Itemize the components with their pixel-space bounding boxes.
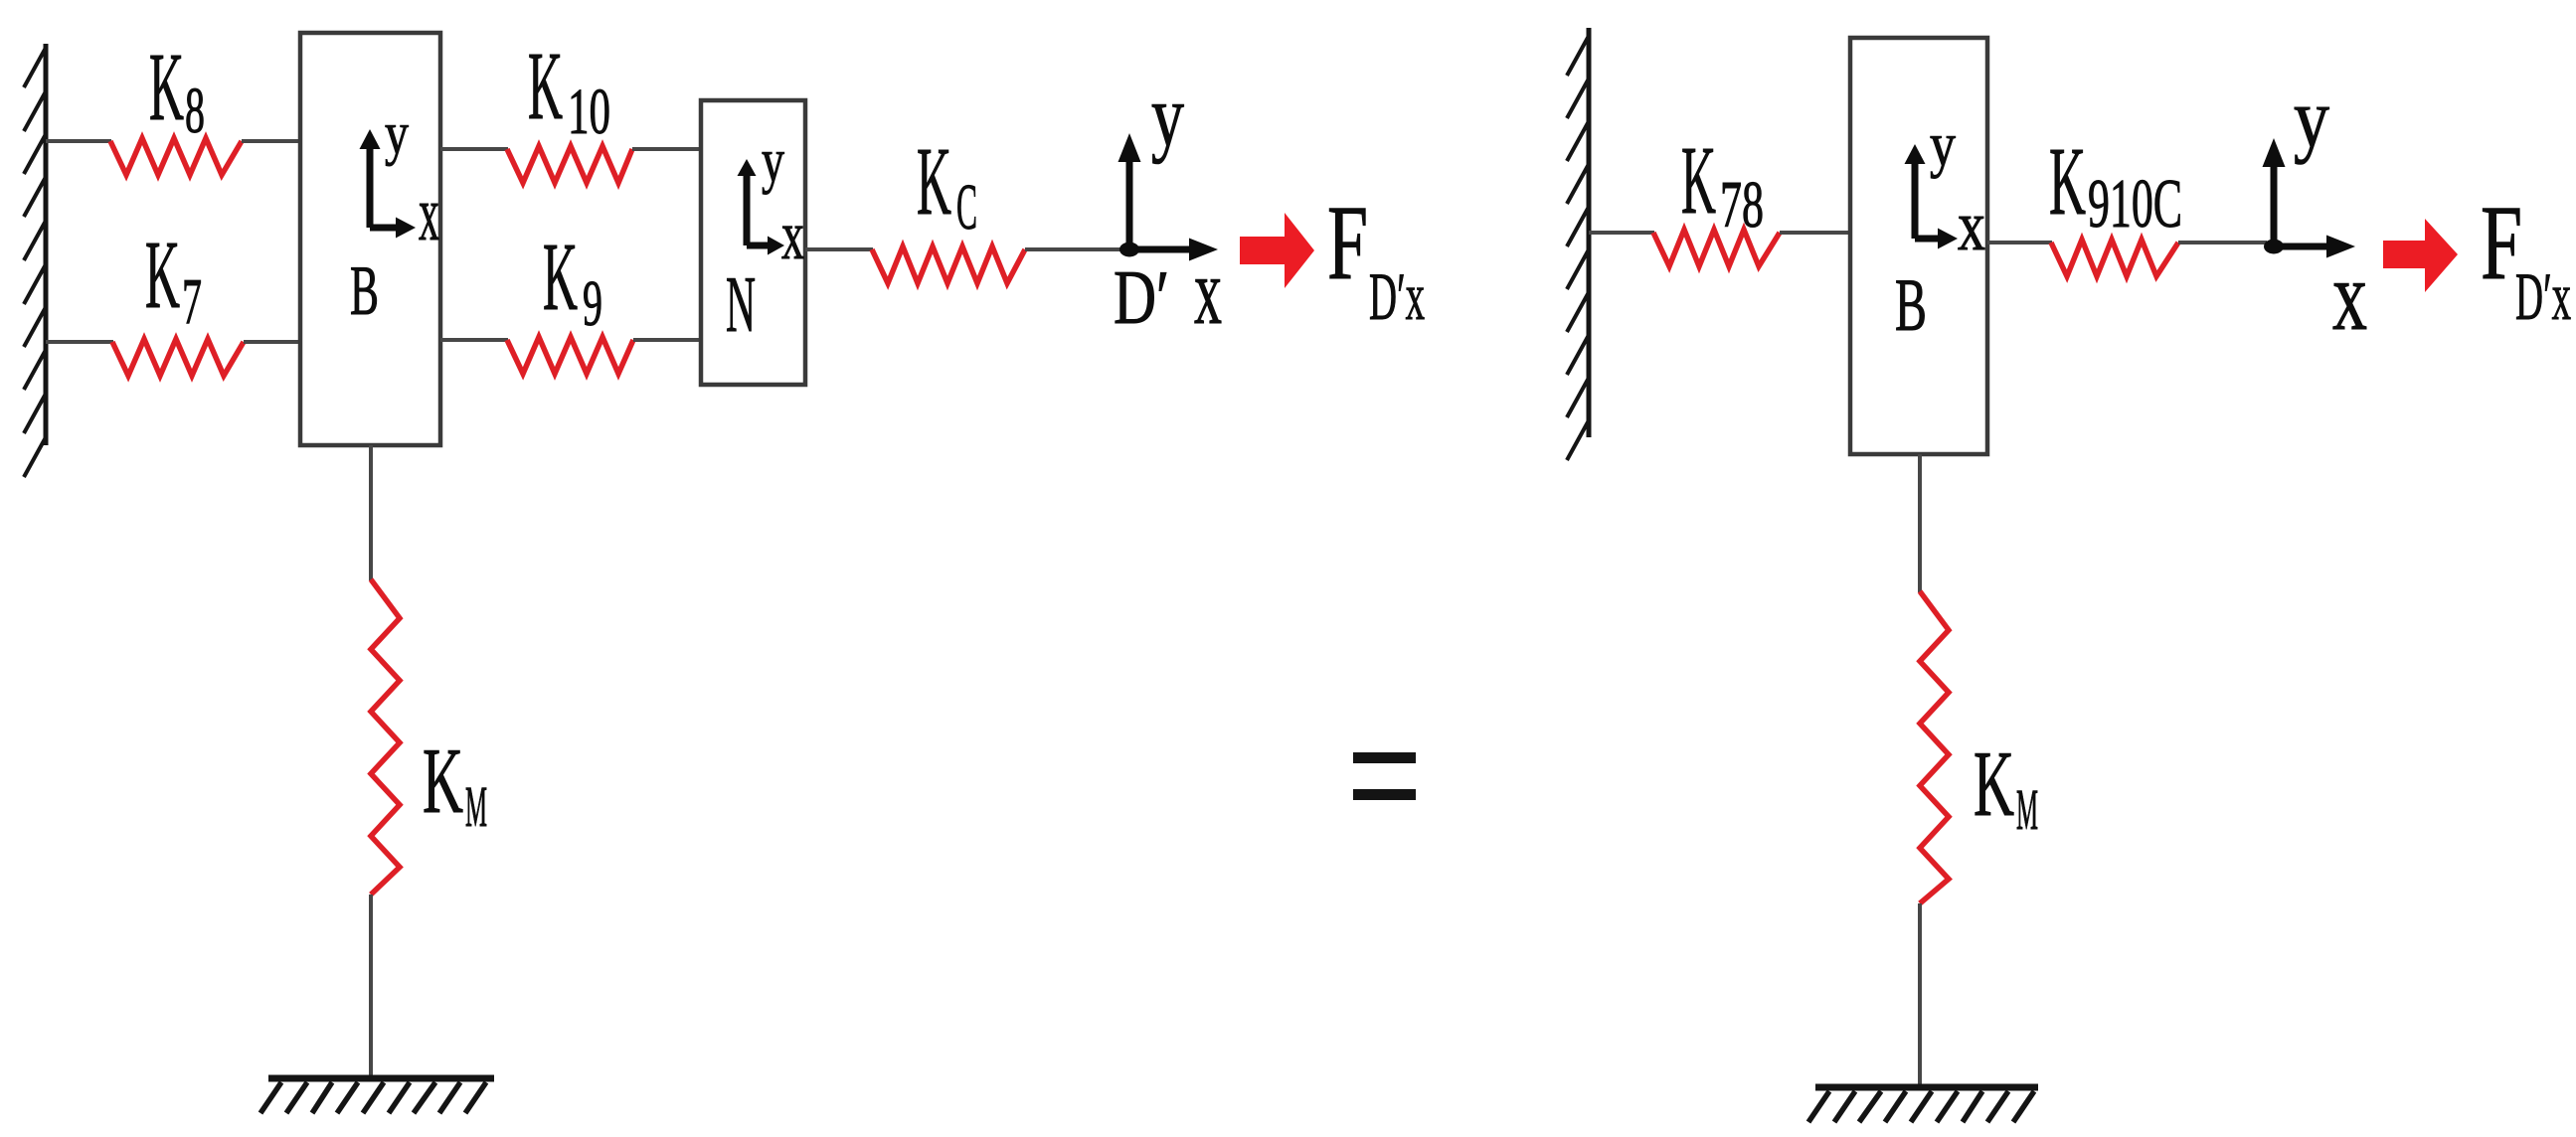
svg-text:y: y <box>1151 69 1184 165</box>
force arrow F_D'x (left) <box>1240 213 1314 288</box>
svg-text:K: K <box>145 222 180 329</box>
node D axes (right, with origin dot) <box>2263 138 2356 258</box>
svg-text:x: x <box>1194 239 1222 344</box>
block B (right mass) <box>1850 38 1987 454</box>
wire wall to spring K8 <box>46 139 111 143</box>
spring KM (right) <box>1920 591 1949 903</box>
wire spring K8 to block B <box>242 139 301 143</box>
block N <box>701 100 805 385</box>
svg-text:K: K <box>149 34 184 141</box>
svg-text:910C: 910C <box>2088 166 2182 243</box>
svg-text:y: y <box>1930 111 1956 179</box>
wall W1 (left fixed support) <box>44 44 49 445</box>
spring KM (left) <box>371 579 400 894</box>
wire spring K9 to block N <box>633 338 702 342</box>
wire wall to spring K7 <box>46 340 113 344</box>
wire block B down to spring KM (left) <box>369 445 373 580</box>
spring K9 <box>507 337 633 374</box>
wire wall to spring K78 <box>1589 231 1654 235</box>
wire block N to spring KC <box>805 247 873 251</box>
wire spring KC to node D' <box>1025 247 1125 251</box>
svg-text:x: x <box>419 170 439 256</box>
wire spring K10 to block N <box>632 147 702 151</box>
svg-text:D′: D′ <box>1114 254 1169 340</box>
spring K10 <box>507 146 632 183</box>
ground G1 (left) <box>268 1075 494 1082</box>
svg-text:M: M <box>465 774 487 839</box>
svg-text:N: N <box>726 261 756 349</box>
block B (left mass) <box>300 33 440 445</box>
svg-text:D′x: D′x <box>1369 258 1425 334</box>
spring K7 <box>112 339 244 376</box>
svg-text:K: K <box>528 33 563 140</box>
svg-text:F: F <box>1327 185 1368 302</box>
wall W1 hatching <box>24 48 46 477</box>
wire block B to spring K9 <box>440 338 508 342</box>
svg-text:K: K <box>2049 128 2086 236</box>
svg-text:M: M <box>2016 777 2038 842</box>
wire spring K78 to block B (right) <box>1780 231 1851 235</box>
ground G2 hatching <box>1808 1091 2034 1122</box>
ground G1 hatching <box>260 1082 486 1113</box>
spring K910C <box>2051 240 2178 276</box>
spring K78 <box>1653 230 1780 266</box>
equals sign <box>1353 752 1416 763</box>
node D' axes (with origin dot) <box>1118 133 1219 261</box>
svg-text:9: 9 <box>583 267 602 340</box>
svg-text:D′x: D′x <box>2515 258 2571 334</box>
svg-text:x: x <box>1958 186 1985 265</box>
svg-text:x: x <box>781 198 804 274</box>
svg-text:K: K <box>917 128 951 236</box>
wire spring KM to ground (left) <box>369 894 373 1078</box>
svg-text:B: B <box>1895 264 1927 347</box>
wire spring K7 to block B <box>244 340 301 344</box>
wire spring KM to ground (right) <box>1918 903 1922 1087</box>
svg-text:K: K <box>543 224 578 331</box>
svg-text:K: K <box>423 730 463 833</box>
axes at B (left) <box>360 129 417 239</box>
force arrow F_D'x (right) <box>2383 219 2458 292</box>
svg-text:x: x <box>2332 241 2367 351</box>
svg-text:7: 7 <box>182 265 202 338</box>
svg-text:8: 8 <box>185 75 205 147</box>
axes at B (right) <box>1905 144 1959 249</box>
svg-text:B: B <box>350 252 379 330</box>
svg-text:y: y <box>2294 72 2329 165</box>
spring K8 <box>110 138 242 175</box>
svg-text:78: 78 <box>1720 168 1764 242</box>
spring KC <box>872 246 1025 283</box>
wire block B down to spring KM (right) <box>1918 454 1922 592</box>
ground G2 (right) <box>1815 1084 2038 1091</box>
svg-text:K: K <box>1974 732 2014 836</box>
svg-text:10: 10 <box>568 76 610 148</box>
svg-text:y: y <box>762 127 784 195</box>
axes at N <box>738 159 785 255</box>
svg-text:K: K <box>1681 127 1716 235</box>
wall W2 (right fixed support) <box>1587 28 1592 437</box>
wire block B to spring K910C <box>1987 241 2052 244</box>
svg-text:y: y <box>385 100 409 166</box>
wire spring K910C to node D (right) <box>2178 241 2267 244</box>
svg-text:C: C <box>956 171 977 244</box>
wall W2 hatching <box>1567 36 1589 460</box>
wire block B to spring K10 <box>440 147 508 151</box>
